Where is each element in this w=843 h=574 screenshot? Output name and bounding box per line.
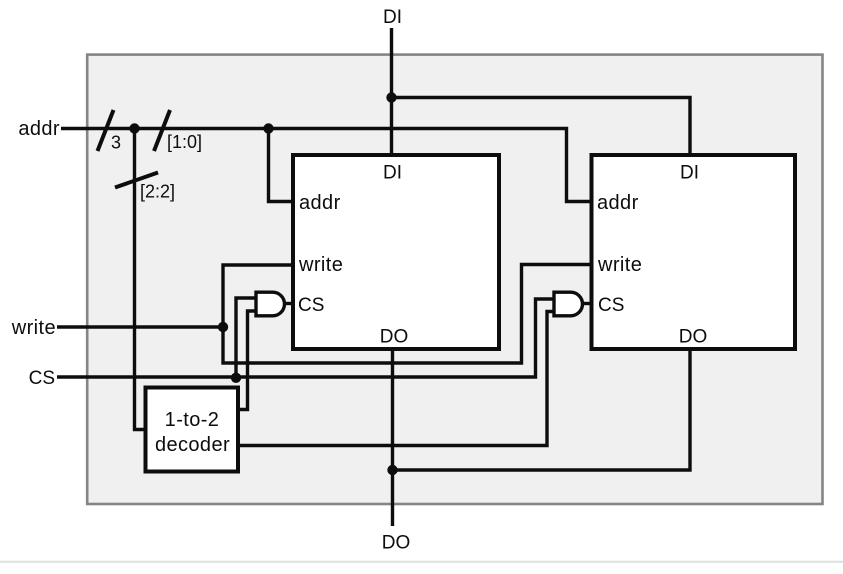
svg-text:write: write (11, 317, 56, 339)
AND gate G1 (left chip select) (256, 292, 284, 316)
wire DI branch to U2 (392, 98, 691, 156)
svg-text:write: write (597, 254, 642, 276)
svg-text:CS: CS (298, 295, 324, 316)
1-to-2 decoder block (146, 388, 239, 472)
wire CS main run to right AND gate input (57, 299, 554, 377)
svg-text:1-to-2: 1-to-2 (165, 409, 220, 431)
AND gate G2 (right chip select) (554, 292, 582, 316)
svg-text:[1:0]: [1:0] (167, 132, 202, 152)
svg-text:addr: addr (299, 192, 341, 214)
wire decoder output 1 to right AND gate input (240, 312, 554, 446)
svg-text:write: write (298, 254, 343, 276)
wire addr bus to U2 addr pin (61, 129, 592, 202)
page separator line (0, 561, 843, 563)
wire write routed to U2 write pin (223, 265, 592, 364)
svg-text:[2:2]: [2:2] (140, 182, 175, 202)
RAM block U1 (293, 155, 499, 349)
junction dot write (218, 322, 228, 332)
wire addr[2:2] down to decoder input (135, 129, 146, 430)
bus slash [2:2] (115, 173, 158, 188)
wire CS branch to left AND gate input (236, 298, 256, 378)
svg-text:addr: addr (18, 118, 60, 140)
RAM block U2 (592, 155, 796, 349)
junction dot addr to decoder (129, 123, 139, 133)
svg-text:CS: CS (598, 295, 624, 316)
wire write up into U1 write pin (223, 265, 293, 327)
wire write from label (57, 325, 223, 328)
wire DO branch from U2 (393, 351, 691, 470)
junction dot DI branch (386, 92, 396, 102)
svg-text:DO: DO (382, 533, 411, 554)
svg-text:CS: CS (29, 368, 55, 389)
svg-text:DO: DO (380, 327, 409, 348)
junction dot DO (387, 465, 397, 475)
svg-text:addr: addr (597, 192, 639, 214)
svg-text:DI: DI (680, 163, 699, 184)
wire addr branch into U1 addr pin (269, 129, 294, 202)
bus slash [1:0] (154, 110, 170, 151)
svg-text:DI: DI (383, 7, 402, 28)
wire DO from U1 down and out (391, 351, 394, 526)
junction dot addr to U1 (263, 123, 273, 133)
svg-text:DO: DO (679, 327, 708, 348)
wire G2 output to U2 CS pin (583, 302, 592, 305)
svg-text:DI: DI (383, 163, 402, 184)
outer system enclosure (87, 55, 822, 504)
bus slash 3-wide (98, 110, 114, 151)
junction dot CS (231, 373, 241, 383)
wire G1 output to U1 CS pin (285, 302, 294, 305)
wire decoder output 0 to left AND gate input (240, 311, 256, 410)
svg-text:decoder: decoder (155, 434, 230, 456)
wire DI vertical into U1 (390, 28, 393, 155)
svg-text:3: 3 (111, 133, 121, 153)
